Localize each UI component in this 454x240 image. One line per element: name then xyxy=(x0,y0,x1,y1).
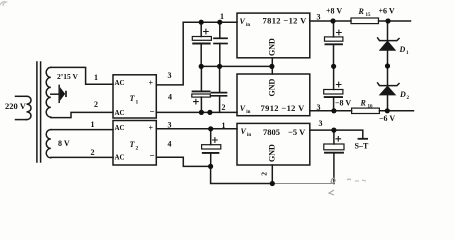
wire 7805 gnd pin drop xyxy=(271,165,273,184)
svg-text:1: 1 xyxy=(91,120,95,129)
svg-text:2: 2 xyxy=(136,146,139,152)
svg-text:in: in xyxy=(246,23,250,28)
node gnd bus cap xyxy=(208,164,213,169)
svg-text:R: R xyxy=(358,7,365,16)
svg-text:−: − xyxy=(150,151,155,161)
svg-text:+: + xyxy=(149,124,154,133)
node +5V out xyxy=(331,128,336,133)
svg-text:AC: AC xyxy=(115,124,125,132)
capacitor C3 electrolytic xyxy=(192,66,211,112)
node gnd rail end xyxy=(269,64,274,69)
wire 7812 out +8V rail xyxy=(310,20,351,22)
regulator U2 7912 xyxy=(237,74,310,116)
svg-text:D: D xyxy=(399,90,406,99)
capacitor C4 ceramic xyxy=(211,66,226,112)
wire -6V rail xyxy=(379,110,413,112)
svg-text:AC: AC xyxy=(115,79,125,87)
wire T1 pin3 riser to top rail xyxy=(156,22,183,85)
wire +6V rail xyxy=(379,20,411,22)
node top rail C2 xyxy=(217,20,222,25)
svg-text:−6 V: −6 V xyxy=(379,114,395,123)
wire secondary2 top to T2 pin1 xyxy=(51,129,113,131)
svg-text:2: 2 xyxy=(94,100,98,109)
svg-text:−8 V: −8 V xyxy=(335,99,351,108)
svg-text:3: 3 xyxy=(317,13,321,22)
svg-text:4: 4 xyxy=(168,93,172,102)
regulator U3 7805 xyxy=(237,123,310,165)
svg-text:1: 1 xyxy=(94,73,98,82)
wire T2 pin4 to ground bus xyxy=(156,157,210,166)
wire secondary1 bottom to T1 pin2 xyxy=(51,112,113,117)
svg-text:3: 3 xyxy=(168,121,172,130)
wire gnd interconnect 7812-7912 xyxy=(271,58,273,74)
wire center tap xyxy=(51,93,59,95)
wire gnd rail xyxy=(201,65,272,67)
capacitor C7 electrolytic xyxy=(324,66,343,111)
zener diode D1 xyxy=(378,21,399,66)
wire ground bus faint xyxy=(272,183,334,185)
svg-text:1: 1 xyxy=(136,100,139,106)
transformer secondary winding 2x15V xyxy=(46,67,51,117)
svg-text:2: 2 xyxy=(222,103,226,112)
svg-text:D: D xyxy=(399,45,406,54)
node gnd rail C2 xyxy=(217,64,222,69)
wire T1 pin4 to 7912 Vin xyxy=(156,111,237,113)
transformer secondary winding 8V xyxy=(46,130,51,158)
node gnd rail C1 xyxy=(199,64,204,69)
wire T2 pin3 to 7805 Vin xyxy=(156,128,237,130)
bridge rectifier T2 xyxy=(113,121,156,166)
svg-text:7812 −12 V: 7812 −12 V xyxy=(263,16,308,26)
capacitor C2 ceramic xyxy=(214,22,227,66)
svg-text:2: 2 xyxy=(259,172,268,176)
wire 7912 out -8V rail xyxy=(310,110,352,112)
wire secondary1 top to T1 pin1 xyxy=(51,67,113,84)
svg-text:GND: GND xyxy=(268,38,277,56)
svg-text:3: 3 xyxy=(319,119,323,128)
node -6V xyxy=(385,108,390,113)
svg-text:1: 1 xyxy=(220,12,224,21)
terminal S-T xyxy=(359,138,368,140)
svg-text:220 V: 220 V xyxy=(5,101,27,111)
ground center tap xyxy=(59,85,66,102)
svg-text:3: 3 xyxy=(317,103,321,112)
svg-text:7805: 7805 xyxy=(263,127,280,137)
resistor R15 xyxy=(351,18,379,24)
node -8V xyxy=(331,108,336,113)
resistor R16 xyxy=(352,108,380,113)
capacitor C8 electrolytic 5V output xyxy=(324,130,344,183)
wire top rail to 7812 Vin xyxy=(183,21,237,23)
wire secondary2 bottom to T2 pin2 xyxy=(51,156,113,158)
svg-text:GND: GND xyxy=(268,79,277,97)
capacitor C6 electrolytic xyxy=(325,21,343,66)
svg-text:in: in xyxy=(246,110,250,115)
svg-text:2: 2 xyxy=(91,148,95,157)
node +6V xyxy=(385,18,390,23)
node right gnd upper xyxy=(331,64,336,69)
svg-text:1: 1 xyxy=(222,121,226,130)
svg-text:8 V: 8 V xyxy=(58,139,70,148)
svg-text:1: 1 xyxy=(406,51,409,56)
svg-text:−: − xyxy=(150,107,155,117)
node -12 rail extra xyxy=(207,110,212,115)
svg-text:+6 V: +6 V xyxy=(379,7,395,16)
svg-text:4: 4 xyxy=(168,140,172,149)
node zener mid xyxy=(385,63,390,68)
capacitor C5 electrolytic xyxy=(202,129,221,167)
regulator U1 7812 xyxy=(237,13,310,58)
svg-text:2: 2 xyxy=(407,96,410,101)
svg-text:GND: GND xyxy=(268,144,277,162)
svg-text:15: 15 xyxy=(366,13,372,18)
svg-text:R: R xyxy=(360,99,367,108)
svg-text:AC: AC xyxy=(115,109,125,117)
zener diode D2 xyxy=(378,66,399,111)
svg-text:AC: AC xyxy=(115,154,125,162)
svg-text:in: in xyxy=(247,133,251,138)
wire ground bus xyxy=(211,166,273,183)
svg-text:S–T: S–T xyxy=(355,142,369,151)
svg-text:V: V xyxy=(240,104,246,113)
svg-text:3: 3 xyxy=(168,71,172,80)
bridge rectifier T1 xyxy=(113,75,156,118)
svg-text:−5 V: −5 V xyxy=(288,127,306,137)
scan artifact marks xyxy=(0,2,366,195)
svg-text:+: + xyxy=(149,79,154,88)
node dots xyxy=(199,18,391,186)
node gnd bus 7805 xyxy=(270,181,275,186)
svg-text:V: V xyxy=(240,17,246,26)
node +8V xyxy=(330,18,335,23)
svg-text:+8 V: +8 V xyxy=(326,7,342,16)
wire 7805 out +5V xyxy=(310,130,363,139)
node top rail C1 xyxy=(199,20,204,25)
node -12 rail C3 xyxy=(199,110,204,115)
transformer primary winding xyxy=(16,96,32,119)
capacitor C1 electrolytic xyxy=(192,22,211,66)
node +5 in rail C5 xyxy=(208,126,213,131)
svg-text:16: 16 xyxy=(368,105,374,110)
transformer core xyxy=(37,62,41,162)
svg-text:2’15 V: 2’15 V xyxy=(57,72,78,81)
svg-text:7912 −12 V: 7912 −12 V xyxy=(261,103,306,113)
svg-text:V: V xyxy=(241,127,247,136)
